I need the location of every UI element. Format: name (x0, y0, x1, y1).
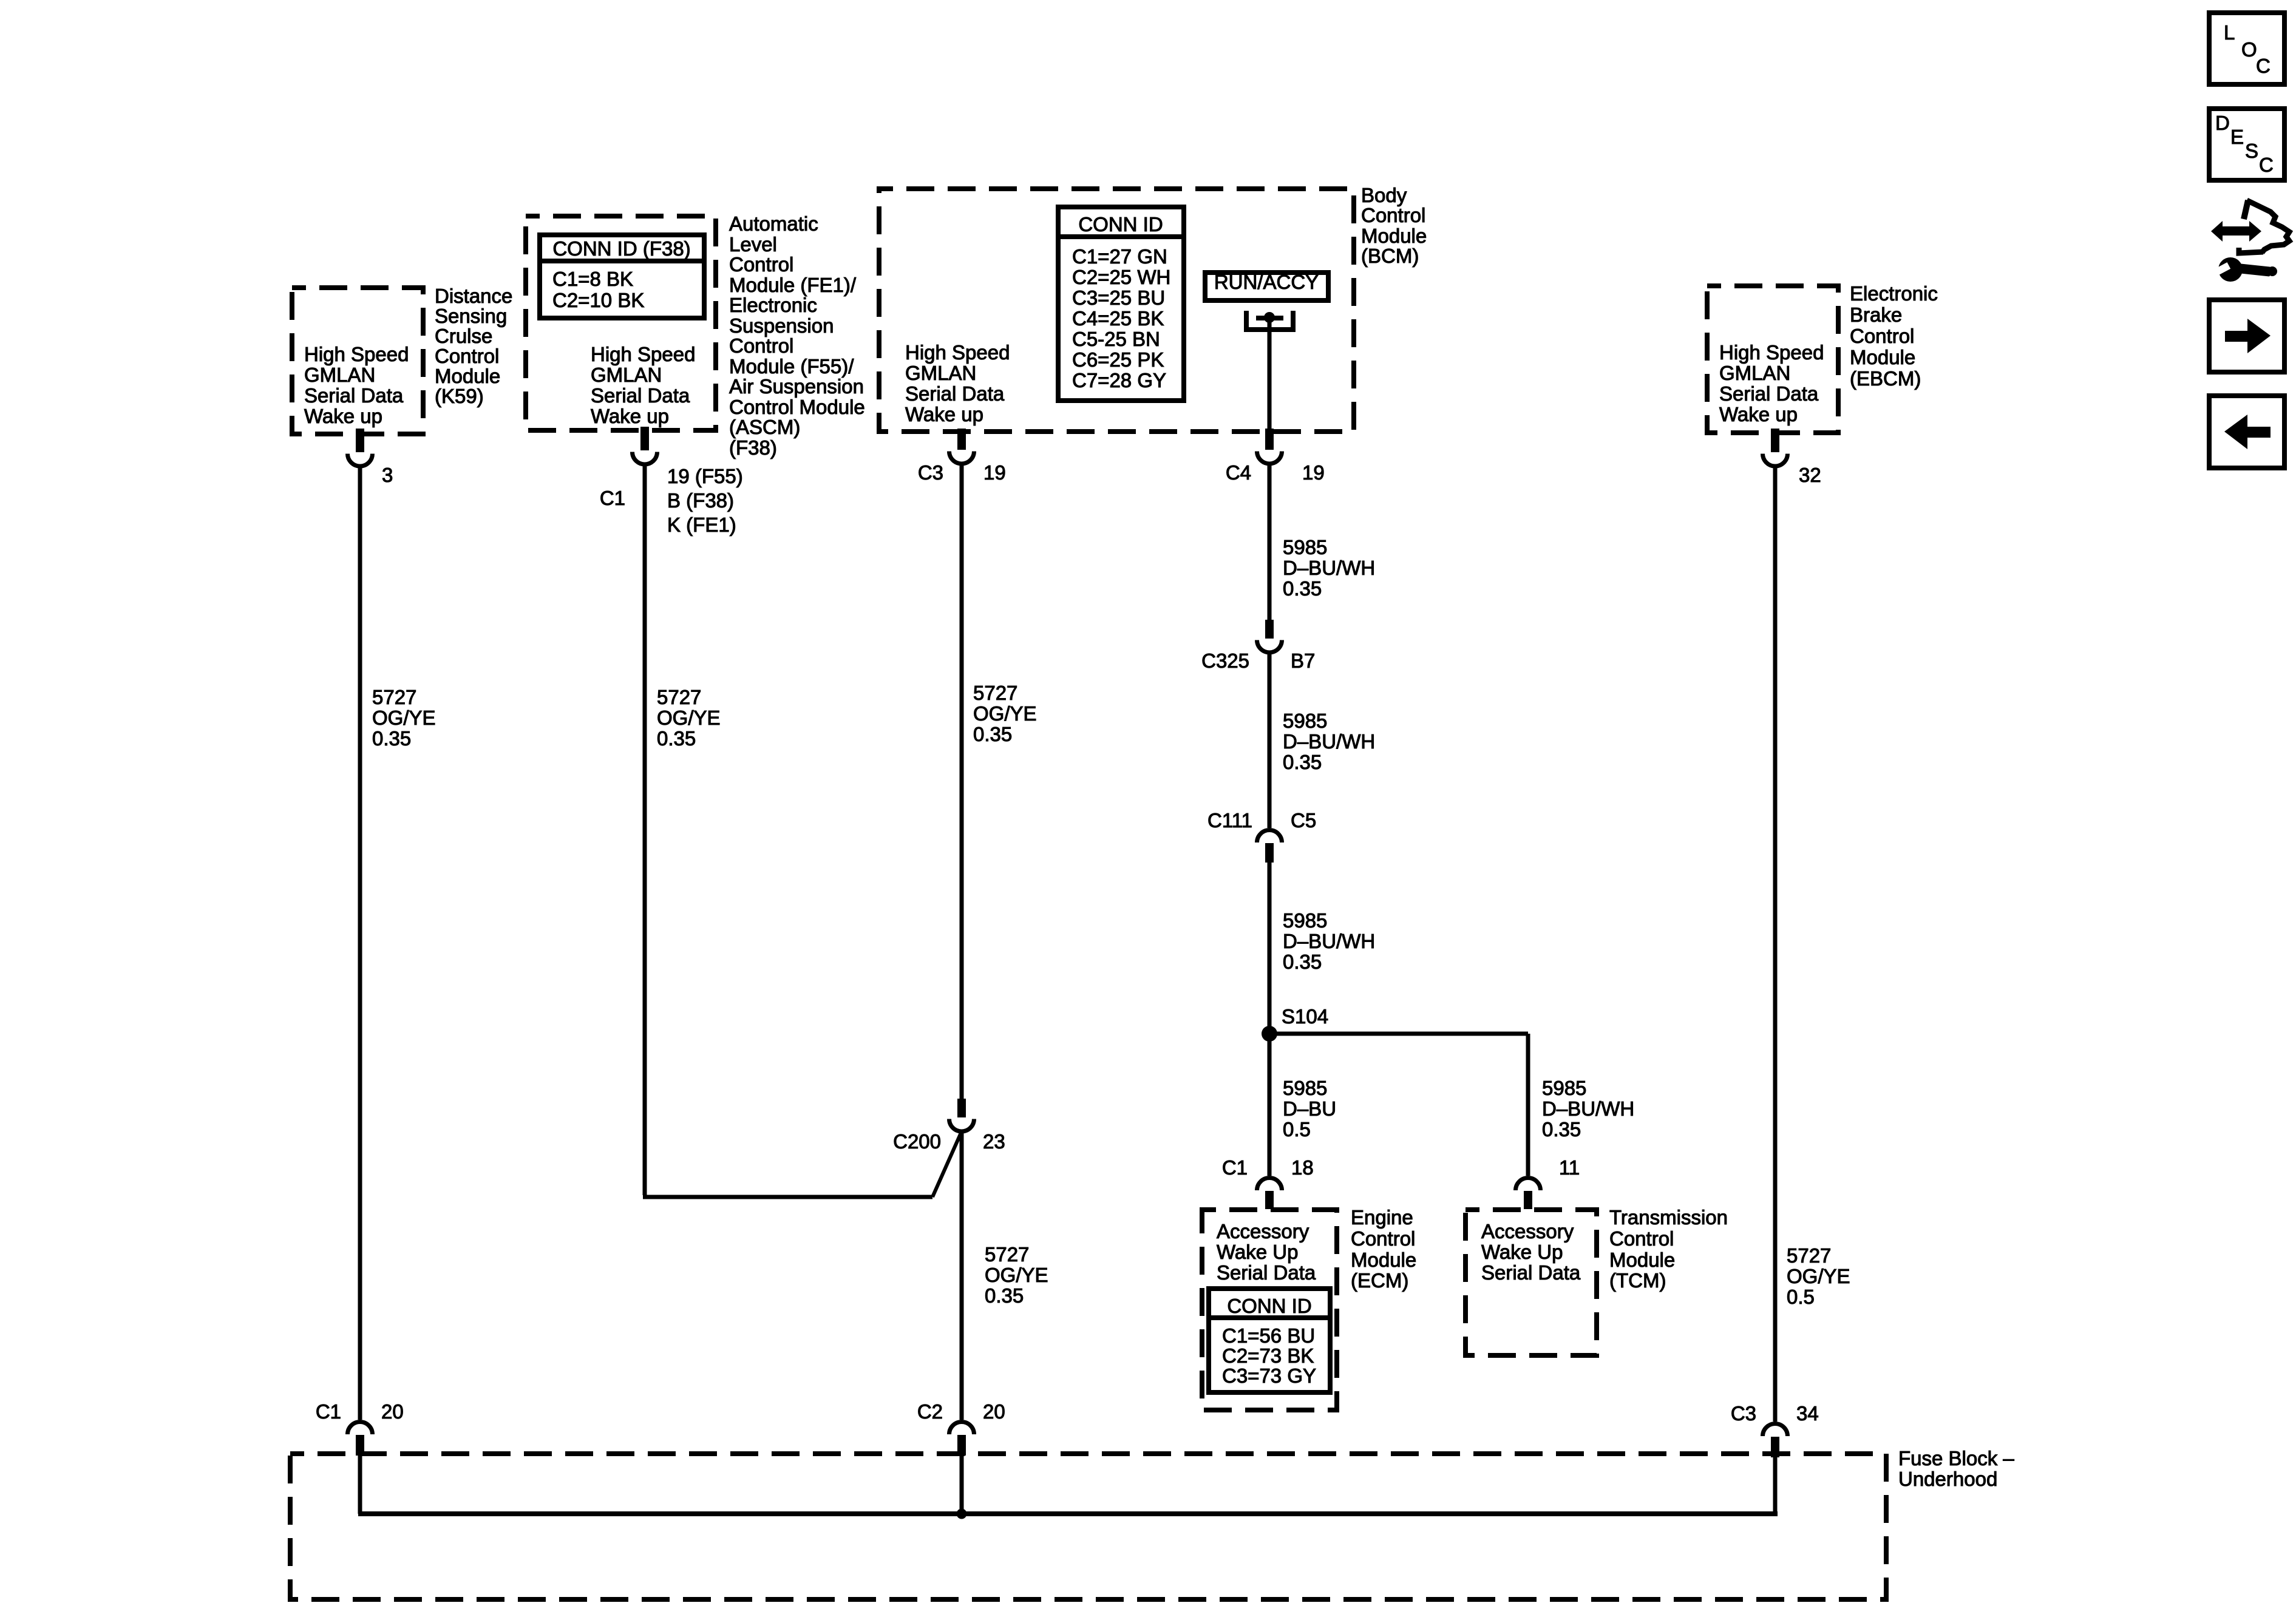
F38 CONN ID table box (540, 235, 704, 318)
svg-text:C111: C111 (1207, 809, 1252, 832)
connector C200 (957, 1099, 966, 1117)
wire label 5985 D-BU/WH 0.35 (TCM branch) (1542, 1077, 1634, 1141)
wire label 5985 D-BU/WH 0.35 (seg 3) (1283, 909, 1375, 973)
EBCM box internal text (1719, 341, 1824, 425)
svg-text:5727: 5727 (985, 1243, 1029, 1266)
svg-text:19 (F55): 19 (F55) (667, 465, 743, 487)
fuse block internal bus wire (358, 1454, 362, 1514)
svg-text:0.35: 0.35 (985, 1284, 1024, 1307)
svg-text:C2=10 BK: C2=10 BK (552, 289, 644, 311)
RUN/ACCY switch symbol (1246, 311, 1293, 330)
svg-text:11: 11 (1559, 1156, 1580, 1179)
svg-text:C3=25 BU: C3=25 BU (1072, 286, 1165, 309)
BCM module label (1361, 184, 1427, 267)
svg-text:Control: Control (1351, 1227, 1415, 1250)
RUN/ACCY box (1205, 273, 1328, 300)
K59 module label (435, 285, 512, 407)
svg-text:C: C (2259, 154, 2274, 176)
connector at BCM C4 exit (1265, 429, 1274, 450)
connector at EBCM exit (1771, 429, 1779, 452)
svg-text:C6=25 PK: C6=25 PK (1072, 348, 1164, 371)
svg-text:0.35: 0.35 (1283, 751, 1322, 773)
F38 box internal text (591, 343, 695, 427)
svg-text:C1: C1 (600, 487, 625, 509)
module box: Fuse Block - Underhood (290, 1454, 1886, 1599)
svg-text:High Speed: High Speed (1719, 341, 1824, 364)
svg-text:0.35: 0.35 (1283, 577, 1322, 600)
wire label 5727 OG/YE 0.35 (K59 branch) (372, 686, 436, 750)
connector at BCM C3 exit (957, 429, 966, 450)
svg-text:(EBCM): (EBCM) (1850, 367, 1921, 390)
svg-text:C3: C3 (1731, 1402, 1756, 1425)
connector at fuse block C2 (949, 1422, 974, 1435)
svg-text:High Speed: High Speed (905, 341, 1010, 364)
fuse block label (1898, 1447, 2014, 1490)
svg-text:Accessory: Accessory (1217, 1220, 1309, 1242)
icon: DESC box (2209, 109, 2284, 180)
wire 5985 D-BU/WH segment 2 (1268, 654, 1272, 828)
svg-text:Control Module: Control Module (729, 396, 865, 418)
svg-text:Electronic: Electronic (729, 294, 817, 316)
svg-text:Control: Control (1361, 204, 1425, 226)
svg-text:Distance: Distance (435, 285, 512, 307)
svg-text:C5: C5 (1291, 809, 1316, 832)
svg-text:D–BU/WH: D–BU/WH (1283, 730, 1375, 753)
svg-text:Module: Module (1609, 1249, 1675, 1271)
F38 CONN ID rows (552, 268, 644, 311)
svg-text:D–BU/WH: D–BU/WH (1283, 930, 1375, 952)
svg-text:3: 3 (382, 464, 393, 486)
svg-text:Air Suspension: Air Suspension (729, 375, 864, 398)
svg-text:OG/YE: OG/YE (973, 702, 1037, 725)
svg-text:(ECM): (ECM) (1351, 1269, 1408, 1292)
icon: connector outline zigzag (2244, 200, 2248, 219)
svg-text:5727: 5727 (372, 686, 416, 708)
svg-text:Body: Body (1361, 184, 1407, 206)
svg-text:0.35: 0.35 (372, 727, 411, 750)
svg-text:0.35: 0.35 (657, 727, 696, 750)
svg-text:5727: 5727 (657, 686, 701, 708)
svg-text:O: O (2241, 38, 2257, 61)
svg-text:C: C (2256, 55, 2271, 77)
module box: Engine Control Module (ECM) (1202, 1210, 1337, 1410)
ECM module label (1351, 1206, 1416, 1292)
svg-text:OG/YE: OG/YE (1787, 1265, 1850, 1287)
wire 5985 D-BU/WH segment 1 (1268, 466, 1272, 621)
svg-text:Serial Data: Serial Data (591, 384, 690, 407)
svg-text:D: D (2215, 112, 2230, 134)
svg-text:S104: S104 (1282, 1005, 1328, 1028)
svg-text:Module: Module (1351, 1249, 1416, 1271)
svg-text:(BCM): (BCM) (1361, 245, 1419, 267)
svg-text:Fuse Block –: Fuse Block – (1898, 1447, 2014, 1470)
connector at TCM entry (1516, 1178, 1541, 1190)
svg-text:E: E (2230, 126, 2244, 148)
svg-text:0.5: 0.5 (1283, 1118, 1311, 1141)
svg-text:Wake up: Wake up (1719, 403, 1798, 425)
svg-text:B (F38): B (F38) (667, 489, 734, 512)
svg-text:Suspension: Suspension (729, 314, 834, 337)
svg-text:C325: C325 (1201, 649, 1249, 672)
icon: double arrow (connector end views) (2221, 226, 2250, 236)
F38 pin labels 19/B/K (667, 465, 743, 536)
connector at F38 exit (640, 427, 649, 450)
TCM module label (1609, 1206, 1728, 1292)
svg-text:C5-25 BN: C5-25 BN (1072, 328, 1160, 350)
svg-text:Wake up: Wake up (304, 405, 382, 427)
svg-text:Transmission: Transmission (1609, 1206, 1728, 1229)
svg-text:B7: B7 (1291, 649, 1315, 672)
wire 5727 OG/YE from F38 down (643, 466, 647, 1195)
icon: right arrow box (2209, 300, 2284, 372)
svg-text:Automatic: Automatic (729, 212, 818, 235)
wire diagonal into C200 (932, 1131, 962, 1197)
svg-text:0.5: 0.5 (1787, 1286, 1815, 1308)
svg-text:C4: C4 (1226, 461, 1251, 484)
K59 box internal text (304, 343, 409, 427)
svg-text:19: 19 (983, 461, 1006, 484)
svg-text:0.35: 0.35 (973, 723, 1012, 745)
connector C325 (1265, 620, 1274, 639)
svg-text:Control: Control (1850, 325, 1914, 347)
module box: Body Control Module (BCM) (879, 189, 1354, 432)
svg-text:C2=25 WH: C2=25 WH (1072, 266, 1170, 288)
svg-text:5985: 5985 (1283, 1077, 1327, 1099)
svg-text:Module: Module (1361, 225, 1427, 247)
svg-text:(TCM): (TCM) (1609, 1269, 1666, 1292)
wire RUN/ACCY switch to BCM C4 exit (1268, 317, 1272, 430)
svg-text:Wake up: Wake up (591, 405, 669, 427)
wire label 5727 OG/YE 0.35 (BCM C3 branch) (973, 682, 1037, 745)
ECM CONN ID table box (1209, 1289, 1330, 1392)
svg-text:CONN ID: CONN ID (1227, 1295, 1311, 1317)
ECM box internal text (1217, 1220, 1316, 1284)
svg-text:19: 19 (1302, 461, 1325, 484)
icon: left arrow box (2209, 396, 2284, 468)
module box: Automatic Level Control / ASCM (F38) (526, 216, 716, 430)
connector at K59 exit (356, 429, 364, 452)
wire label 5985 D-BU 0.5 (ECM branch) (1283, 1077, 1336, 1141)
wire 5727 OG/YE from C200 to fuse block C2 (960, 1133, 964, 1420)
svg-text:Control: Control (729, 334, 793, 357)
module box: Transmission Control Module (TCM) (1466, 1210, 1597, 1355)
svg-text:Wake Up: Wake Up (1481, 1241, 1563, 1263)
svg-text:(K59): (K59) (435, 385, 484, 407)
svg-text:C4=25 BK: C4=25 BK (1072, 307, 1164, 330)
svg-text:5727: 5727 (973, 682, 1017, 704)
svg-text:Module (F55)/: Module (F55)/ (729, 355, 854, 378)
wire 5727 OG/YE from BCM C3 to C200 (960, 466, 964, 1100)
wire F38 horizontal run to C200 (643, 1195, 932, 1199)
svg-text:Crulse: Crulse (435, 325, 492, 347)
module box: Distance Sensing Cruise Control Module (K59) (292, 288, 423, 434)
svg-text:Serial Data: Serial Data (1217, 1261, 1316, 1284)
BCM CONN ID rows (1072, 245, 1170, 392)
svg-text:23: 23 (983, 1130, 1005, 1153)
icon: wrench (2218, 257, 2243, 282)
svg-text:C1: C1 (316, 1400, 341, 1423)
svg-text:Level: Level (729, 233, 777, 256)
wire label 5985 D-BU/WH 0.35 (seg 2) (1283, 710, 1375, 773)
svg-text:0.35: 0.35 (1542, 1118, 1581, 1141)
svg-text:Control: Control (729, 253, 793, 276)
svg-text:S: S (2245, 140, 2258, 162)
svg-text:Serial Data: Serial Data (905, 382, 1005, 405)
svg-text:Accessory: Accessory (1481, 1220, 1574, 1242)
svg-text:D–BU: D–BU (1283, 1097, 1336, 1120)
svg-text:0.35: 0.35 (1283, 951, 1322, 973)
connector at ECM entry (1257, 1178, 1282, 1190)
svg-text:5985: 5985 (1283, 710, 1327, 732)
svg-text:20: 20 (381, 1400, 404, 1423)
svg-text:Serial Data: Serial Data (304, 384, 404, 407)
wire 5985 D-BU/WH segment 3 (1268, 862, 1272, 1034)
icon: LOC box (2209, 13, 2284, 84)
svg-text:OG/YE: OG/YE (372, 707, 436, 729)
svg-text:OG/YE: OG/YE (985, 1264, 1048, 1286)
svg-text:C1=27 GN: C1=27 GN (1072, 245, 1167, 268)
TCM box internal text (1481, 1220, 1581, 1284)
connector at fuse block C3 (1763, 1423, 1788, 1436)
svg-text:C2=73 BK: C2=73 BK (1222, 1344, 1314, 1367)
BCM box internal text (905, 341, 1010, 425)
wire label 5727 OG/YE 0.5 (EBCM branch) (1787, 1244, 1850, 1308)
svg-text:C7=28 GY: C7=28 GY (1072, 369, 1166, 392)
svg-text:High Speed: High Speed (304, 343, 409, 365)
svg-text:32: 32 (1799, 464, 1821, 486)
svg-text:Electronic: Electronic (1850, 282, 1938, 305)
svg-text:5985: 5985 (1542, 1077, 1586, 1099)
svg-text:5985: 5985 (1283, 536, 1327, 558)
svg-text:Engine: Engine (1351, 1206, 1413, 1229)
svg-text:Serial Data: Serial Data (1481, 1261, 1581, 1284)
svg-text:C3=73 GY: C3=73 GY (1222, 1364, 1316, 1387)
svg-text:High Speed: High Speed (591, 343, 695, 365)
svg-text:C1=56 BU: C1=56 BU (1222, 1324, 1315, 1347)
svg-text:Underhood: Underhood (1898, 1468, 1997, 1490)
module box: Electronic Brake Control Module (EBCM) (1707, 286, 1838, 433)
svg-text:(ASCM): (ASCM) (729, 416, 800, 438)
svg-text:GMLAN: GMLAN (905, 362, 976, 384)
wire 5727 OG/YE from EBCM to fuse block C3 (1773, 468, 1778, 1422)
svg-text:5985: 5985 (1283, 909, 1327, 932)
svg-text:GMLAN: GMLAN (304, 364, 375, 386)
svg-text:5727: 5727 (1787, 1244, 1831, 1267)
BCM CONN ID table box (1058, 207, 1184, 401)
svg-text:20: 20 (983, 1400, 1005, 1423)
svg-text:18: 18 (1291, 1156, 1314, 1179)
svg-text:Brake: Brake (1850, 303, 1902, 326)
svg-text:C1=8 BK: C1=8 BK (552, 268, 633, 290)
svg-text:C200: C200 (893, 1130, 941, 1153)
svg-text:K (FE1): K (FE1) (667, 514, 736, 536)
svg-text:C1: C1 (1222, 1156, 1248, 1179)
svg-text:Wake up: Wake up (905, 403, 983, 425)
svg-text:CONN ID (F38): CONN ID (F38) (552, 237, 690, 260)
connector at fuse block C1 (348, 1422, 373, 1435)
svg-text:D–BU/WH: D–BU/WH (1283, 557, 1375, 579)
svg-text:RUN/ACCY: RUN/ACCY (1214, 271, 1319, 293)
F38 module label (729, 212, 865, 459)
wire 5727 OG/YE from K59 to fuse block C1 (358, 468, 362, 1420)
svg-text:34: 34 (1796, 1402, 1819, 1425)
wire 5985 D-BU to ECM (1268, 1034, 1272, 1176)
svg-text:CONN ID: CONN ID (1078, 213, 1163, 236)
splice S104 (1262, 1026, 1277, 1042)
svg-text:L: L (2224, 21, 2235, 44)
svg-text:GMLAN: GMLAN (1719, 362, 1790, 384)
svg-text:Module (FE1)/: Module (FE1)/ (729, 274, 857, 296)
svg-text:Control: Control (1609, 1227, 1674, 1250)
wire label 5985 D-BU/WH 0.35 (seg 1) (1283, 536, 1375, 600)
wire label 5727 OG/YE 0.35 (F38 branch) (657, 686, 721, 750)
connector C111 (1257, 830, 1282, 842)
wire label 5727 OG/YE 0.35 (below C200) (985, 1243, 1048, 1307)
svg-text:C2: C2 (917, 1400, 943, 1423)
svg-text:(F38): (F38) (729, 436, 777, 459)
svg-text:D–BU/WH: D–BU/WH (1542, 1097, 1634, 1120)
svg-text:Wake Up: Wake Up (1217, 1241, 1298, 1263)
svg-text:Control: Control (435, 345, 499, 367)
svg-text:Module: Module (435, 365, 500, 387)
fuse block bus junction (957, 1509, 967, 1519)
svg-text:GMLAN: GMLAN (591, 364, 662, 386)
wire S104 branch to TCM (1269, 1032, 1528, 1036)
ECM CONN ID rows (1222, 1324, 1316, 1387)
svg-text:Module: Module (1850, 346, 1915, 368)
svg-text:C3: C3 (918, 461, 943, 484)
svg-text:Sensing: Sensing (435, 305, 507, 327)
svg-text:OG/YE: OG/YE (657, 707, 721, 729)
svg-text:Serial Data: Serial Data (1719, 382, 1819, 405)
EBCM module label (1850, 282, 1938, 390)
